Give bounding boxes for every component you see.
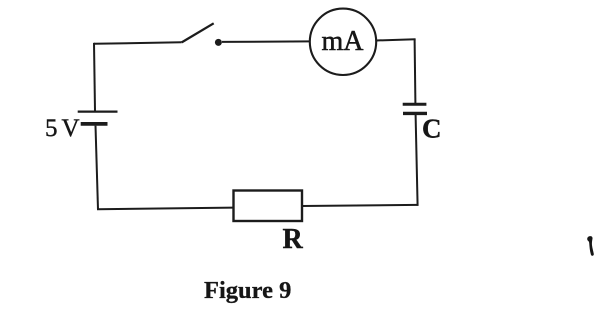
switch S1 contact dot [215, 39, 222, 46]
battery B1 (5V cell) [78, 112, 118, 124]
resistor R [234, 191, 303, 222]
svg-text:R: R [283, 224, 304, 255]
switch S1 lever [182, 23, 214, 42]
wire bottom-right segment [302, 205, 418, 206]
svg-text:C: C [422, 114, 442, 144]
wire top-right segment [376, 39, 415, 40]
svg-text:5V: 5V [45, 115, 80, 142]
stray mark (Arabic digit one) [587, 236, 594, 256]
wire right vertical lower (capacitor bottom lead) [416, 115, 418, 206]
svg-text:Figure 9: Figure 9 [204, 277, 291, 304]
wire capacitor top lead [414, 39, 417, 103]
wire top-left horizontal [94, 42, 182, 44]
wire battery bottom lead [96, 126, 99, 210]
wire left vertical (battery top lead) [94, 43, 95, 111]
capacitor C [403, 104, 427, 113]
wire meter to switch node [222, 40, 310, 43]
svg-text:mA: mA [322, 26, 365, 57]
wire bottom-left segment [97, 208, 234, 210]
ammeter U1 (mA meter) [310, 9, 376, 75]
